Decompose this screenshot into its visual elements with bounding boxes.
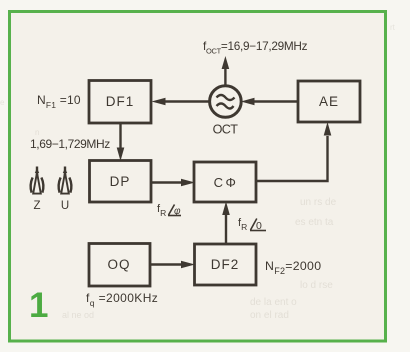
- svg-text:un rs de: un rs de: [300, 197, 337, 208]
- svg-text:DF1: DF1: [106, 94, 135, 109]
- wire OQ right to DF2 left: [150, 261, 195, 269]
- svg-text:es etn ta: es etn ta: [295, 217, 334, 228]
- wire OCT circle top, arrow up to f label: [222, 56, 230, 86]
- label f_R angle phi: [157, 203, 181, 218]
- svg-text:1,69−1,729MHz: 1,69−1,729MHz: [30, 137, 110, 151]
- svg-text:DF2: DF2: [211, 257, 240, 272]
- wire OCT circle to DF1 right: [152, 98, 210, 106]
- svg-text:OCT: OCT: [213, 123, 239, 137]
- svg-text:OQ: OQ: [107, 257, 130, 272]
- wire AE left to OCT circle: [241, 98, 298, 106]
- svg-text:AE: AE: [319, 94, 339, 109]
- box DF1: [89, 81, 151, 124]
- box C-phi (SF mixer): [194, 162, 256, 202]
- svg-text:rt: rt: [390, 23, 396, 32]
- svg-text:Z: Z: [33, 200, 40, 212]
- box DF2: [195, 244, 257, 285]
- svg-text:n: n: [35, 128, 39, 137]
- oscillator OCT circle: [210, 86, 242, 118]
- wire C-phi right, up to AE bottom: [255, 122, 331, 181]
- jack symbol U: [59, 167, 72, 194]
- svg-text:e: e: [0, 98, 5, 107]
- svg-text:on el rad: on el rad: [250, 310, 289, 321]
- label f_R angle 0: [238, 217, 266, 232]
- box AE: [298, 81, 360, 122]
- svg-text:CΦ: CΦ: [214, 175, 239, 190]
- jack symbol Z: [31, 167, 44, 194]
- svg-text:0: 0: [256, 220, 262, 232]
- svg-text:de la ent o: de la ent o: [250, 297, 297, 308]
- wire DF2 top to C-phi bottom: [222, 202, 230, 245]
- wire DP right to C-phi left: [151, 179, 195, 187]
- box DP: [90, 161, 152, 203]
- svg-text:φ: φ: [174, 206, 181, 217]
- svg-text:1: 1: [29, 286, 48, 325]
- svg-text:al ne od: al ne od: [62, 310, 94, 320]
- box OQ: [89, 244, 150, 287]
- svg-text:U: U: [61, 200, 69, 212]
- svg-text:lo d rse: lo d rse: [300, 280, 333, 291]
- svg-text:DP: DP: [110, 174, 131, 189]
- wire DF1 bottom to DP top: [117, 122, 125, 161]
